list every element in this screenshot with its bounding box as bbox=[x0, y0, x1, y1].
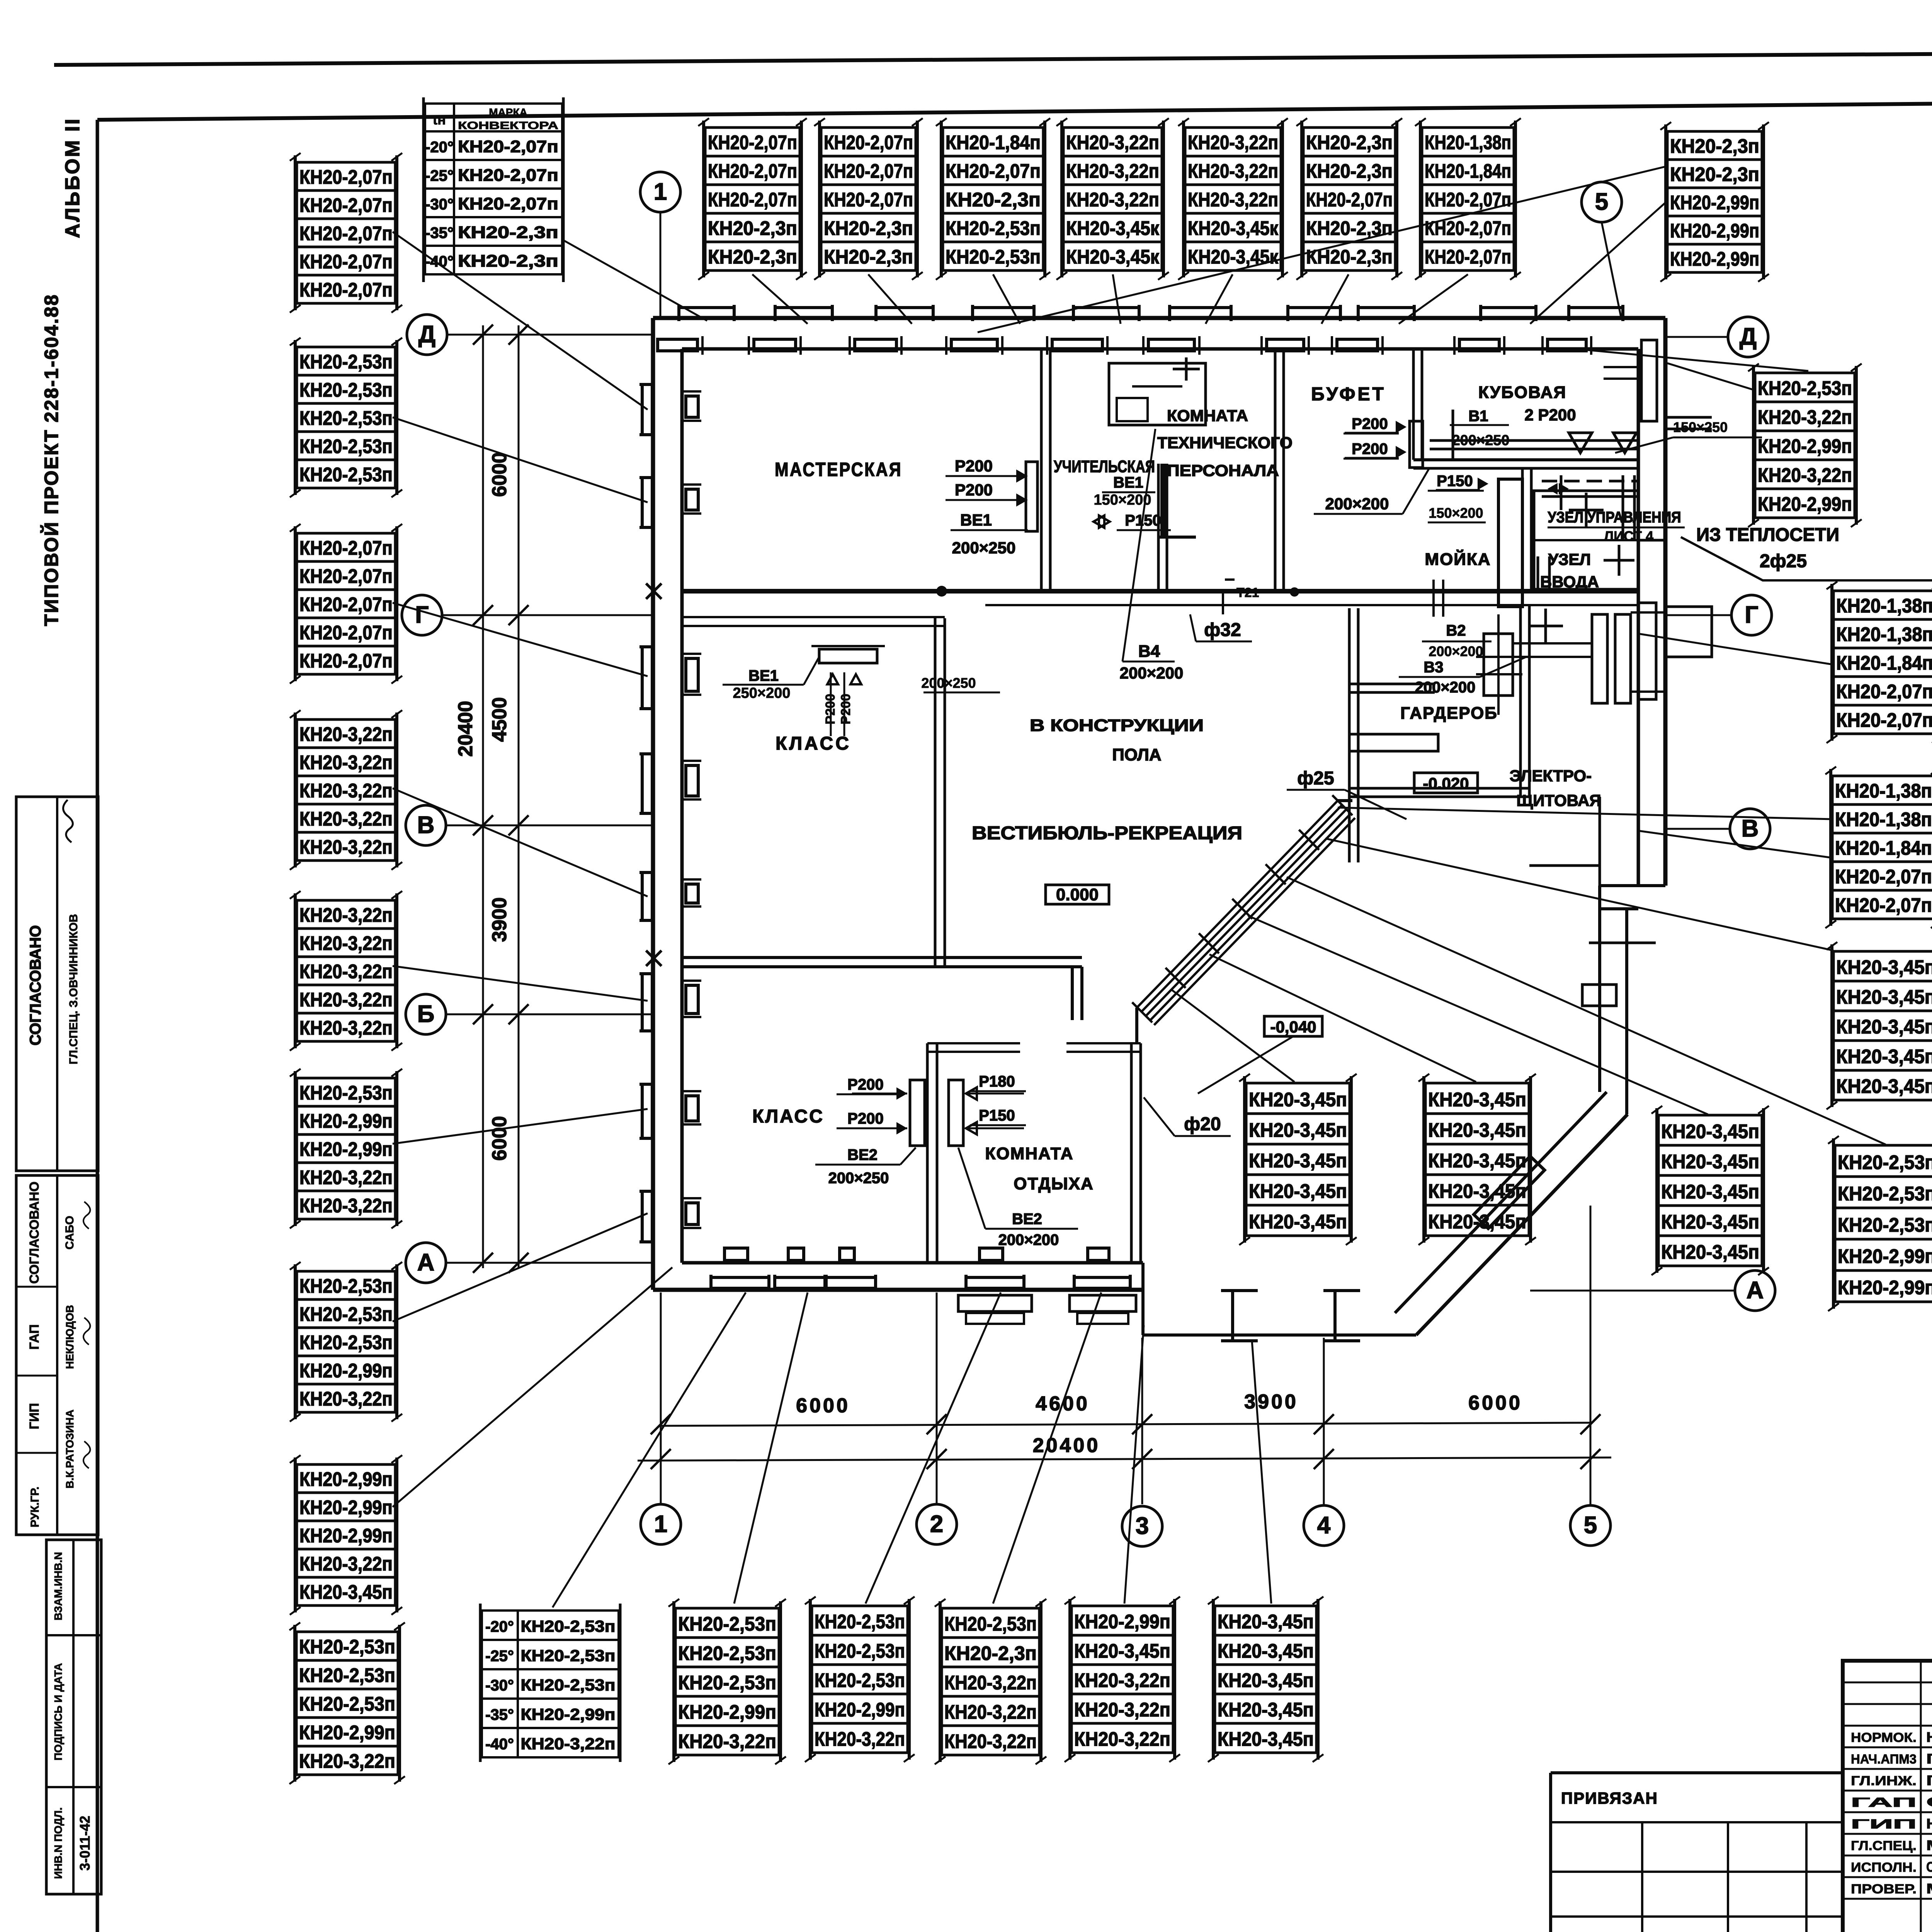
svg-text:КН20-3,22п: КН20-3,22п bbox=[299, 1553, 393, 1575]
svg-text:КН20-3,45п: КН20-3,45п bbox=[1074, 1640, 1170, 1662]
axis circle 1 bottom bbox=[641, 1504, 681, 1544]
svg-text:ВЕ2: ВЕ2 bbox=[847, 1146, 878, 1163]
svg-text:А: А bbox=[417, 1249, 435, 1276]
svg-text:КН20-3,45п: КН20-3,45п bbox=[1661, 1241, 1759, 1263]
dim tick stem bbox=[936, 1376, 937, 1426]
svg-text:КН20-3,22п: КН20-3,22п bbox=[299, 1166, 393, 1188]
svg-text:ф25: ф25 bbox=[1297, 768, 1334, 789]
svg-text:КН20-2,53п: КН20-2,53п bbox=[299, 1636, 395, 1658]
svg-text:КН20-2,53п: КН20-2,53п bbox=[944, 1613, 1037, 1635]
axis circle V right bbox=[1730, 809, 1770, 849]
svg-text:Р150: Р150 bbox=[1437, 473, 1473, 490]
leader right stacks bbox=[1667, 363, 1755, 390]
heater group gardrob bbox=[1484, 634, 1513, 696]
svg-text:200×200: 200×200 bbox=[1415, 679, 1476, 696]
svg-text:Т21: Т21 bbox=[1236, 585, 1259, 600]
stamp column bbox=[16, 797, 101, 1894]
svg-text:20400: 20400 bbox=[1033, 1434, 1100, 1457]
svg-text:КН20-2,07п: КН20-2,07п bbox=[299, 250, 393, 272]
svg-text:КН20-3,45п: КН20-3,45п bbox=[1249, 1211, 1347, 1233]
outer wall left bbox=[651, 318, 655, 1290]
svg-text:СОГЛАСОВАНО: СОГЛАСОВАНО bbox=[27, 1182, 42, 1284]
svg-text:КН20-2,07п: КН20-2,07п bbox=[458, 166, 558, 185]
svg-text:Р200: Р200 bbox=[823, 694, 838, 724]
svg-text:-0,040: -0,040 bbox=[1270, 1018, 1316, 1036]
right stack 5 bbox=[1651, 1106, 1769, 1275]
svg-text:КН20-3,45п: КН20-3,45п bbox=[1218, 1669, 1314, 1691]
outer wall top bbox=[653, 316, 1665, 320]
garderob counter bbox=[1349, 734, 1438, 751]
svg-text:ВЕ1: ВЕ1 bbox=[1113, 474, 1143, 491]
left stack 5 bbox=[290, 891, 402, 1051]
svg-text:КН20-3,45п: КН20-3,45п bbox=[1218, 1611, 1314, 1633]
svg-text:КН20-3,45п: КН20-3,45п bbox=[1428, 1088, 1526, 1111]
svg-text:КН20-3,45п: КН20-3,45п bbox=[1249, 1150, 1347, 1172]
svg-text:Г: Г bbox=[1745, 602, 1758, 628]
svg-text:КН20-2,53п: КН20-2,53п bbox=[299, 1664, 395, 1686]
right stack 1 bbox=[1748, 364, 1862, 527]
svg-text:КН20-3,45п: КН20-3,45п bbox=[1836, 986, 1932, 1008]
axis circle G right bbox=[1731, 595, 1772, 635]
window bbox=[946, 305, 1034, 355]
svg-text:ОТДЫХА: ОТДЫХА bbox=[1014, 1174, 1094, 1193]
svg-text:ГЛ.СПЕЦ.: ГЛ.СПЕЦ. bbox=[1851, 1838, 1917, 1853]
pipe junction dot 1 bbox=[936, 586, 947, 597]
elektro room wall bbox=[1599, 797, 1601, 886]
top stack 4 bbox=[1056, 118, 1169, 280]
svg-text:КН20-3,45п: КН20-3,45п bbox=[1218, 1728, 1314, 1750]
svg-text:КН20-2,07п: КН20-2,07п bbox=[824, 131, 913, 153]
svg-text:5: 5 bbox=[1595, 189, 1608, 215]
axis circle A right bbox=[1735, 1270, 1775, 1311]
svg-text:КН20-1,38п: КН20-1,38п bbox=[1835, 780, 1932, 802]
svg-text:КН20-2,53п: КН20-2,53п bbox=[299, 1275, 393, 1297]
svg-text:tн: tн bbox=[433, 112, 446, 128]
svg-text:КН20-2,07п: КН20-2,07п bbox=[299, 621, 393, 643]
right wall step bbox=[1600, 884, 1665, 887]
svg-text:КН20-2,99п: КН20-2,99п bbox=[299, 1138, 393, 1160]
svg-text:ЛИСТ 4: ЛИСТ 4 bbox=[1604, 528, 1653, 544]
bottom dimension line 1 bbox=[661, 1423, 1590, 1426]
svg-text:Р200: Р200 bbox=[838, 694, 853, 724]
svg-text:КН20-3,45п: КН20-3,45п bbox=[1428, 1119, 1526, 1141]
svg-text:ВВОДА: ВВОДА bbox=[1540, 573, 1599, 591]
wall moika/uzel vvoda bbox=[1521, 468, 1524, 591]
svg-text:КН20-3,22п: КН20-3,22п bbox=[299, 1017, 393, 1039]
svg-text:КН20-3,22п: КН20-3,22п bbox=[944, 1701, 1037, 1723]
VE2 units lower class bbox=[910, 1080, 925, 1146]
svg-text:В2: В2 bbox=[1446, 622, 1466, 639]
svg-text:КН20-2,99п: КН20-2,99п bbox=[521, 1705, 616, 1723]
dim tick stem bbox=[1590, 1376, 1591, 1426]
right stack 6 bbox=[1828, 1136, 1932, 1311]
top stack 1 bbox=[698, 118, 807, 280]
wall masterskaya/uchitelskaya bbox=[1040, 349, 1043, 591]
svg-text:КН20-3,22п: КН20-3,22п bbox=[815, 1728, 905, 1750]
svg-text:КН20-2,53п: КН20-2,53п bbox=[299, 350, 393, 372]
svg-text:КН20-2,3п: КН20-2,3п bbox=[1306, 160, 1393, 182]
svg-text:РУК.ГР.: РУК.ГР. bbox=[29, 1486, 41, 1527]
svg-text:КУБОВАЯ: КУБОВАЯ bbox=[1478, 383, 1566, 402]
svg-text:ЭЛЕКТРО-: ЭЛЕКТРО- bbox=[1510, 767, 1592, 785]
porch diagonal outer bbox=[1416, 1114, 1628, 1335]
bottom stack 6 bbox=[1208, 1597, 1323, 1762]
svg-text:КН20-2,99п: КН20-2,99п bbox=[1670, 219, 1759, 241]
svg-text:КН20-2,99п: КН20-2,99п bbox=[1670, 248, 1759, 270]
moika P150 arrow bbox=[1436, 489, 1480, 491]
svg-text:КН20-3,45п: КН20-3,45п bbox=[299, 1581, 393, 1603]
svg-text:КН20-2,3п: КН20-2,3п bbox=[1670, 163, 1759, 185]
window bbox=[1074, 1248, 1130, 1291]
svg-text:ПИЧУГИН: ПИЧУГИН bbox=[1926, 1772, 1932, 1788]
svg-text:КН20-3,22п: КН20-3,22п bbox=[1074, 1699, 1170, 1721]
svg-text:КОНВЕКТОРА: КОНВЕКТОРА bbox=[458, 119, 558, 131]
svg-text:КН20-3,22п: КН20-3,22п bbox=[1074, 1728, 1170, 1750]
svg-text:ТЕХНИЧЕСКОГО: ТЕХНИЧЕСКОГО bbox=[1157, 434, 1293, 452]
svg-text:ПОДПИСЬ И ДАТА: ПОДПИСЬ И ДАТА bbox=[52, 1663, 64, 1760]
sheet top edge line bbox=[54, 49, 1932, 65]
svg-text:КН20-2,53п: КН20-2,53п bbox=[946, 217, 1041, 239]
svg-text:КН20-2,07п: КН20-2,07п bbox=[299, 650, 393, 672]
svg-text:ПИЧУГИН: ПИЧУГИН bbox=[1926, 1751, 1932, 1767]
svg-text:КН20-3,22п: КН20-3,22п bbox=[299, 751, 393, 773]
wall bufet/kubovaya partial bbox=[1412, 349, 1415, 460]
svg-text:2ф25: 2ф25 bbox=[1760, 551, 1807, 571]
svg-text:КН20-2,07п: КН20-2,07п bbox=[708, 160, 797, 182]
svg-text:КН20-2,53п: КН20-2,53п bbox=[815, 1640, 905, 1662]
svg-text:КН20-1,84п: КН20-1,84п bbox=[1835, 837, 1932, 859]
window bbox=[1262, 305, 1340, 355]
svg-text:АЛЬБОМ II: АЛЬБОМ II bbox=[61, 117, 84, 238]
tech room duct bbox=[1160, 464, 1166, 537]
axis stem bbox=[660, 1293, 662, 1504]
garderob bottom wall bbox=[1349, 787, 1529, 790]
svg-text:ПЕРСОНАЛА: ПЕРСОНАЛА bbox=[1167, 461, 1279, 480]
svg-text:КН20-2,3п: КН20-2,3п bbox=[708, 246, 797, 268]
svg-text:КН20-2,07п: КН20-2,07п bbox=[1835, 866, 1932, 888]
svg-text:КН20-2,07п: КН20-2,07п bbox=[458, 194, 558, 213]
svg-text:КН20-3,22п: КН20-3,22п bbox=[1188, 131, 1278, 153]
svg-text:150×200: 150×200 bbox=[1429, 505, 1483, 521]
lower class right wall bbox=[926, 1043, 929, 1263]
dashed pipe t1 t2 bbox=[1542, 480, 1638, 483]
svg-text:КН20-3,22п: КН20-3,22п bbox=[299, 904, 393, 926]
svg-text:КН20-2,53п: КН20-2,53п bbox=[299, 463, 393, 485]
axis circle 5 top bbox=[1582, 182, 1622, 222]
bottom stack 5 bbox=[1065, 1597, 1180, 1762]
wall junction cross marks bbox=[646, 583, 662, 599]
upper class right wall bbox=[934, 618, 937, 966]
uzel vvoda equipment bbox=[1498, 479, 1522, 607]
axis stem bbox=[1141, 1338, 1143, 1504]
axis circle 1 top bbox=[640, 172, 680, 212]
svg-text:КН20-2,53п: КН20-2,53п bbox=[521, 1617, 616, 1635]
pipe junction dot 2 bbox=[1290, 587, 1299, 597]
bottom dimension line 2 (total) bbox=[638, 1458, 1611, 1461]
window bbox=[639, 478, 701, 527]
wall bufet left bbox=[1274, 349, 1277, 591]
axis circle B left bbox=[406, 994, 446, 1034]
svg-text:ГАРДЕРОБ: ГАРДЕРОБ bbox=[1400, 704, 1498, 723]
svg-text:КН20-3,22п: КН20-3,22п bbox=[299, 1194, 393, 1216]
svg-text:КН20-3,22п: КН20-3,22п bbox=[1188, 189, 1278, 211]
svg-text:КЛАСС: КЛАСС bbox=[752, 1106, 824, 1127]
svg-text:УЗЕЛ УПРАВЛЕНИЯ: УЗЕЛ УПРАВЛЕНИЯ bbox=[1548, 509, 1681, 526]
window bbox=[711, 1248, 769, 1291]
top stack 3 bbox=[936, 118, 1050, 280]
svg-text:ф32: ф32 bbox=[1204, 620, 1241, 640]
svg-text:КН20-2,07п: КН20-2,07п bbox=[1835, 894, 1932, 916]
svg-text:Б: Б bbox=[417, 1001, 435, 1027]
window bbox=[749, 305, 832, 355]
svg-text:КН20-2,3п: КН20-2,3п bbox=[1306, 131, 1393, 153]
mid stack 2 bbox=[1418, 1074, 1536, 1245]
porch column 2 bbox=[1333, 1291, 1337, 1341]
svg-text:В КОНСТРУКЦИИ: В КОНСТРУКЦИИ bbox=[1030, 716, 1204, 735]
svg-text:В: В bbox=[1742, 815, 1759, 842]
svg-text:НЕКЛЮДОВ: НЕКЛЮДОВ bbox=[1926, 1816, 1932, 1832]
diagonal vestibule wall band bbox=[1132, 795, 1355, 1025]
level -0.040 bbox=[1264, 1016, 1322, 1036]
svg-text:2 Р200: 2 Р200 bbox=[1524, 406, 1576, 424]
svg-text:КН20-3,22п: КН20-3,22п bbox=[299, 1388, 393, 1410]
svg-text:КН20-3,45п: КН20-3,45п bbox=[1836, 1016, 1932, 1038]
VE1 convector masterskaya bbox=[1026, 462, 1037, 531]
svg-text:КН20-3,22п: КН20-3,22п bbox=[1188, 160, 1278, 182]
svg-text:6000: 6000 bbox=[796, 1395, 850, 1417]
svg-text:ТИПОВОЙ ПРОЕКТ 228-1-604.88: ТИПОВОЙ ПРОЕКТ 228-1-604.88 bbox=[40, 294, 62, 626]
svg-text:КН20-2,53п: КН20-2,53п bbox=[299, 435, 393, 457]
svg-text:КН20-3,22п: КН20-3,22п bbox=[299, 779, 393, 801]
svg-text:КН20-3,45п: КН20-3,45п bbox=[1836, 1075, 1932, 1097]
svg-text:КН20-2,07п: КН20-2,07п bbox=[1836, 680, 1932, 702]
window bbox=[639, 872, 701, 920]
svg-text:3-011-42: 3-011-42 bbox=[77, 1816, 93, 1871]
svg-text:-35°: -35° bbox=[425, 224, 454, 241]
svg-text:КН20-2,07п: КН20-2,07п bbox=[1836, 709, 1932, 731]
top stack 7 bbox=[1415, 118, 1521, 280]
svg-text:КН20-3,45к: КН20-3,45к bbox=[1066, 217, 1159, 239]
svg-text:КН20-2,53п: КН20-2,53п bbox=[815, 1611, 905, 1633]
svg-text:КН20-3,22п: КН20-3,22п bbox=[944, 1730, 1037, 1752]
svg-text:ПРИВЯЗАН: ПРИВЯЗАН bbox=[1561, 1789, 1658, 1807]
svg-text:Д: Д bbox=[418, 321, 435, 348]
svg-text:6000: 6000 bbox=[488, 452, 511, 497]
svg-text:КН20-3,45п: КН20-3,45п bbox=[1218, 1640, 1314, 1662]
bottom window exterior sill 1 bbox=[958, 1295, 1032, 1311]
leader lines bottom stacks bbox=[553, 1293, 746, 1607]
svg-text:КН20-3,45п: КН20-3,45п bbox=[1661, 1180, 1759, 1202]
svg-text:БУФЕТ: БУФЕТ bbox=[1311, 384, 1386, 405]
top stack 6 bbox=[1296, 118, 1402, 280]
axis circle D right bbox=[1728, 317, 1768, 357]
VE1 unit class room bbox=[819, 649, 877, 663]
valve triangles bbox=[1569, 433, 1636, 453]
svg-text:200×250: 200×250 bbox=[921, 675, 976, 691]
svg-text:250×200: 250×200 bbox=[733, 685, 791, 701]
svg-text:ГЛ.СПЕЦ. З.ОВЧИННИКОВ: ГЛ.СПЕЦ. З.ОВЧИННИКОВ bbox=[67, 914, 80, 1064]
porch floor edge bbox=[1141, 1263, 1145, 1335]
window bbox=[1047, 305, 1139, 355]
bottom stack 3 bbox=[805, 1597, 915, 1762]
svg-text:КН20-3,45п: КН20-3,45п bbox=[1249, 1088, 1347, 1111]
svg-text:Р200: Р200 bbox=[1352, 440, 1388, 457]
window bbox=[850, 305, 933, 355]
axis circle 2 bottom bbox=[917, 1504, 957, 1544]
svg-text:КН20-2,53п: КН20-2,53п bbox=[521, 1646, 616, 1665]
svg-text:1: 1 bbox=[654, 179, 667, 205]
svg-text:200×200: 200×200 bbox=[1429, 643, 1483, 659]
svg-text:3: 3 bbox=[1136, 1513, 1149, 1539]
window bbox=[639, 384, 701, 435]
svg-text:КН20-3,45к: КН20-3,45к bbox=[1066, 246, 1159, 268]
leader lines left stacks to wall bbox=[393, 232, 648, 410]
svg-text:КН20-2,07п: КН20-2,07п bbox=[299, 593, 393, 615]
svg-text:КН20-3,45п: КН20-3,45п bbox=[1428, 1150, 1526, 1172]
B4 unit bbox=[1109, 363, 1206, 425]
window bbox=[653, 305, 734, 355]
svg-text:КН20-2,53п: КН20-2,53п bbox=[299, 1303, 393, 1325]
svg-text:ВЕСТИБЮЛЬ-РЕКРЕАЦИЯ: ВЕСТИБЮЛЬ-РЕКРЕАЦИЯ bbox=[972, 823, 1242, 844]
svg-text:КН20-2,53п: КН20-2,53п bbox=[678, 1642, 776, 1664]
left stack 6 bbox=[290, 1069, 402, 1228]
svg-text:Р200: Р200 bbox=[955, 481, 993, 499]
upper class top wall bbox=[682, 616, 945, 618]
svg-text:КН20-2,53п: КН20-2,53п bbox=[299, 407, 393, 429]
porch diagonal inner bbox=[1395, 1092, 1607, 1313]
svg-text:КН20-2,99п: КН20-2,99п bbox=[299, 1359, 393, 1381]
axis stem bbox=[936, 1293, 938, 1504]
level -0.020 bbox=[1414, 773, 1478, 793]
svg-text:А: А bbox=[1747, 1277, 1764, 1304]
svg-text:КН20-2,99п: КН20-2,99п bbox=[1758, 435, 1852, 457]
svg-text:КН20-2,3п: КН20-2,3п bbox=[1670, 135, 1759, 157]
heater group pipes bbox=[1513, 642, 1592, 645]
svg-text:КН20-3,45п: КН20-3,45п bbox=[1836, 1046, 1932, 1068]
svg-text:4: 4 bbox=[1317, 1512, 1331, 1539]
svg-text:КН20-3,45п: КН20-3,45п bbox=[1661, 1120, 1759, 1142]
svg-text:МИНАЕВА: МИНАЕВА bbox=[1926, 1881, 1932, 1896]
svg-text:КН20-3,22п: КН20-3,22п bbox=[1758, 464, 1852, 486]
svg-text:КН20-3,22п: КН20-3,22п bbox=[1066, 160, 1159, 182]
svg-text:НЕКЛЮДОВ: НЕКЛЮДОВ bbox=[64, 1305, 76, 1369]
left stack 7 bbox=[290, 1262, 402, 1422]
svg-text:ГИП: ГИП bbox=[27, 1403, 42, 1429]
svg-text:200×200: 200×200 bbox=[998, 1231, 1059, 1248]
svg-text:МАРКА: МАРКА bbox=[489, 106, 527, 118]
svg-text:КН20-3,22п: КН20-3,22п bbox=[1074, 1669, 1170, 1691]
axis stem bbox=[1323, 1338, 1325, 1504]
svg-text:-40°: -40° bbox=[425, 253, 454, 270]
svg-text:-30°: -30° bbox=[485, 1677, 514, 1694]
axis B leader bbox=[446, 1014, 652, 1015]
left stack 2 bbox=[290, 338, 402, 497]
svg-text:УЧИТЕЛЬСКАЯ: УЧИТЕЛЬСКАЯ bbox=[1054, 457, 1155, 476]
dim tick stem bbox=[1323, 1376, 1325, 1426]
kubovaya bottom wall bbox=[1413, 458, 1638, 461]
left stack 4 bbox=[290, 710, 402, 870]
svg-text:КН20-2,53п: КН20-2,53п bbox=[1758, 377, 1852, 399]
svg-text:КН20-2,3п: КН20-2,3п bbox=[458, 252, 558, 270]
axis V leader right bbox=[1666, 828, 1730, 830]
window bbox=[639, 647, 701, 709]
svg-text:КН20-2,53п: КН20-2,53п bbox=[299, 1693, 395, 1715]
svg-text:ИЗ ТЕПЛОСЕТИ: ИЗ ТЕПЛОСЕТИ bbox=[1696, 525, 1839, 545]
svg-text:КН20-1,38п: КН20-1,38п bbox=[1835, 808, 1932, 830]
svg-text:КН20-1,84п: КН20-1,84п bbox=[946, 131, 1041, 153]
svg-text:МАСТЕРСКАЯ: МАСТЕРСКАЯ bbox=[775, 459, 902, 480]
lower rooms top wall bbox=[927, 1042, 1020, 1044]
window bbox=[826, 1248, 876, 1291]
wall uchitelskaya/tech room bbox=[1157, 464, 1160, 591]
svg-text:В1: В1 bbox=[1468, 408, 1488, 425]
svg-text:КН20-2,53п: КН20-2,53п bbox=[678, 1672, 776, 1694]
svg-text:НАЧ.АПМ3: НАЧ.АПМ3 bbox=[1851, 1752, 1917, 1767]
svg-text:В: В bbox=[417, 812, 435, 838]
svg-text:КН20-1,84п: КН20-1,84п bbox=[1425, 160, 1511, 182]
svg-text:УЗЕЛ: УЗЕЛ bbox=[1548, 550, 1591, 568]
window bbox=[1454, 305, 1536, 355]
bottom stack 2 bbox=[668, 1599, 786, 1764]
upper class bottom wall bbox=[682, 956, 1082, 959]
svg-text:-20°: -20° bbox=[425, 139, 454, 156]
svg-text:КН20-2,53п: КН20-2,53п bbox=[299, 1082, 393, 1104]
svg-text:КН20-2,99п: КН20-2,99п bbox=[1074, 1611, 1170, 1633]
svg-text:МИНАЕВА: МИНАЕВА bbox=[1926, 1837, 1932, 1853]
svg-text:КН20-3,22п: КН20-3,22п bbox=[299, 808, 393, 830]
vestibule corner walls bbox=[1135, 1008, 1138, 1043]
svg-text:2: 2 bbox=[930, 1511, 943, 1537]
svg-text:МОЙКА: МОЙКА bbox=[1425, 549, 1491, 569]
svg-text:-0.020: -0.020 bbox=[1423, 774, 1469, 793]
svg-text:КН20-2,07п: КН20-2,07п bbox=[299, 279, 393, 301]
bottom-left stack bbox=[289, 1622, 405, 1784]
svg-text:ПОЛА: ПОЛА bbox=[1112, 745, 1161, 764]
svg-text:ГАП: ГАП bbox=[27, 1324, 42, 1350]
svg-text:4500: 4500 bbox=[488, 697, 511, 742]
svg-text:КОМНАТА: КОМНАТА bbox=[1167, 406, 1248, 425]
svg-text:КН20-2,99п: КН20-2,99п bbox=[815, 1699, 905, 1721]
svg-text:200×250: 200×250 bbox=[828, 1170, 889, 1187]
svg-text:3900: 3900 bbox=[488, 897, 511, 942]
svg-text:КН20-2,53п: КН20-2,53п bbox=[1838, 1151, 1932, 1173]
svg-text:НЕКЛЮДОВ: НЕКЛЮДОВ bbox=[1926, 1729, 1932, 1745]
privyazan box bbox=[1551, 1773, 1843, 1932]
right stack 4 bbox=[1827, 942, 1932, 1109]
svg-text:КН20-3,45п: КН20-3,45п bbox=[1249, 1119, 1347, 1141]
pipe runs right wall bbox=[1638, 539, 1665, 542]
svg-text:КН20-2,99п: КН20-2,99п bbox=[299, 1496, 393, 1518]
svg-text:КН20-1,38п: КН20-1,38п bbox=[1836, 623, 1932, 645]
right stack 3 bbox=[1825, 767, 1932, 928]
svg-text:КН20-2,3п: КН20-2,3п bbox=[824, 246, 913, 268]
svg-text:КН20-3,22п: КН20-3,22п bbox=[299, 723, 393, 745]
svg-text:200×200: 200×200 bbox=[1120, 664, 1184, 682]
svg-text:КН20-3,45п: КН20-3,45п bbox=[1249, 1180, 1347, 1202]
bottom window exterior sill 2 bbox=[1070, 1295, 1136, 1311]
svg-text:200×250: 200×250 bbox=[952, 539, 1016, 557]
svg-text:1: 1 bbox=[654, 1511, 667, 1537]
svg-text:6000: 6000 bbox=[488, 1116, 511, 1161]
svg-text:СПИРИДОНОВА: СПИРИДОНОВА bbox=[1926, 1859, 1932, 1875]
axis A leader right bbox=[1530, 1290, 1735, 1292]
svg-text:6000: 6000 bbox=[1468, 1392, 1522, 1414]
axis A leader bbox=[446, 1262, 652, 1264]
window bbox=[1332, 305, 1414, 355]
svg-text:-30°: -30° bbox=[425, 196, 454, 213]
svg-text:150×250: 150×250 bbox=[1673, 419, 1728, 435]
axis 1 line bbox=[660, 212, 662, 317]
